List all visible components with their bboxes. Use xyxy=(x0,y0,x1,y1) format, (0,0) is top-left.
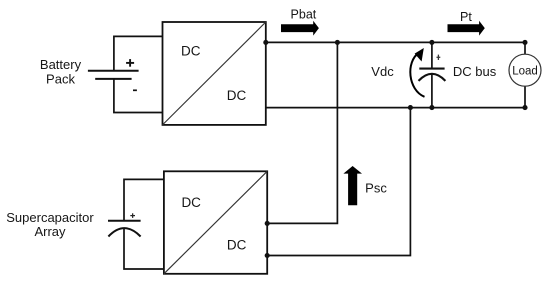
battery + polarity label xyxy=(126,59,134,67)
supercapacitor + polarity label xyxy=(130,213,135,218)
svg-text:DC bus: DC bus xyxy=(453,64,497,79)
load xyxy=(509,42,541,107)
battery - polarity label xyxy=(133,89,137,91)
supercapacitor C2 xyxy=(108,221,141,237)
wire: supercap + to converter U2 input xyxy=(124,179,165,220)
node: junction top bus / supercap converter feed xyxy=(335,40,340,45)
capacitor C1 + polarity label xyxy=(437,55,441,60)
dc-dc converter U2 (supercapacitor side) xyxy=(164,171,267,273)
svg-text:DC: DC xyxy=(227,88,247,103)
wire: DC bus positive rail xyxy=(266,41,525,43)
svg-text:DC: DC xyxy=(181,195,201,210)
wire: battery - to converter U1 input xyxy=(114,79,163,113)
capacitor C1 (DC bus) xyxy=(419,42,446,107)
Pbat arrow xyxy=(281,21,319,36)
battery B1 xyxy=(88,71,139,79)
node: U2 upper output junction xyxy=(265,221,270,226)
svg-text:DC: DC xyxy=(227,237,247,252)
wire: DC bus negative rail xyxy=(266,107,525,109)
dc-dc converter U1 (battery side) xyxy=(163,22,266,125)
battery pack label xyxy=(40,57,82,86)
wire: bottom bus to converter U2 lower output xyxy=(267,108,410,256)
node: junction bottom bus / U2 lower return xyxy=(408,105,413,110)
wire: supercap - to converter U2 input xyxy=(124,229,165,269)
wire: battery + to converter U1 input xyxy=(114,36,163,70)
svg-text:Pbat: Pbat xyxy=(291,7,317,21)
Pt arrow xyxy=(448,21,485,36)
Psc arrow xyxy=(343,166,362,205)
node: load top junction xyxy=(522,40,527,45)
Vdc reference curved arrow xyxy=(410,48,424,97)
svg-text:Battery: Battery xyxy=(40,57,82,72)
supercapacitor array label xyxy=(6,210,94,239)
node: U2 lower output junction xyxy=(265,253,270,258)
node: C1 bottom junction xyxy=(429,105,434,110)
svg-text:Psc: Psc xyxy=(365,181,387,196)
wire: top bus to converter U2 upper output xyxy=(267,42,337,223)
svg-text:Pt: Pt xyxy=(460,10,472,24)
svg-text:Array: Array xyxy=(34,224,66,239)
node: C1 top junction xyxy=(429,40,434,45)
svg-text:Pack: Pack xyxy=(46,71,75,86)
svg-text:Load: Load xyxy=(512,65,538,77)
node: U1 positive output junction xyxy=(263,40,268,45)
node: load bottom junction xyxy=(522,105,527,110)
svg-text:DC: DC xyxy=(181,44,201,59)
svg-text:Vdc: Vdc xyxy=(371,64,394,79)
